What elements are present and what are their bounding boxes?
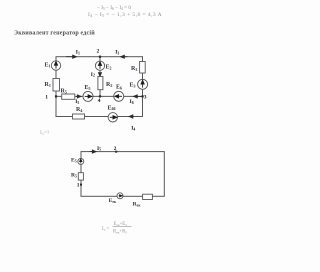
svg-text:R3: R3 [131,66,137,72]
svg-text:I5 =: I5 = [102,227,110,232]
svg-text:Eек+E5: Eек+E5 [114,222,128,227]
svg-text:E5: E5 [85,85,91,91]
svg-text:2: 2 [97,49,100,55]
svg-text:1: 1 [77,182,80,188]
svg-text:E6: E6 [116,85,122,91]
svg-text:E1: E1 [45,63,51,69]
svg-text:I4 − I5 = − 1,3 + 5,6 = 4,3 A: I4 − I5 = − 1,3 + 5,6 = 4,3 A [88,12,162,18]
svg-text:Эквивалент генератор едсій: Эквивалент генератор едсій [14,30,95,37]
svg-text:− I5 − I6 − I4 = 0: − I5 − I6 − I4 = 0 [97,5,131,11]
svg-text:Rек+R5: Rек+R5 [113,230,127,235]
svg-text:1: 1 [45,94,48,100]
svg-text:E2: E2 [106,65,112,71]
svg-text:3: 3 [144,94,147,100]
svg-text:4: 4 [98,98,101,104]
svg-text:E46: E46 [108,105,116,111]
svg-text:R2: R2 [106,82,112,88]
svg-text:R1: R1 [45,82,51,88]
svg-text:I5=?: I5=? [40,130,50,136]
svg-text:R5: R5 [61,89,67,95]
svg-text:E3: E3 [130,83,136,89]
svg-text:R4: R4 [76,107,82,113]
